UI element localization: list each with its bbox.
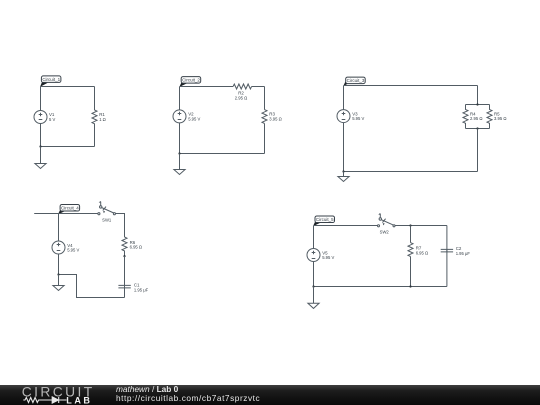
wire left upper C2: [179, 87, 181, 110]
voltage source V1: [34, 111, 55, 124]
svg-text:LAB: LAB: [66, 396, 92, 405]
svg-text:SW2: SW2: [380, 230, 390, 235]
wire left lower C5: [313, 262, 315, 287]
resistor R6: [122, 237, 142, 256]
flag Circuit_3: [343, 77, 365, 86]
svg-text:1 Ω: 1 Ω: [99, 117, 106, 122]
ground C5: [308, 287, 319, 309]
wire left lower C3: [343, 123, 345, 172]
svg-text:6.95 Ω: 6.95 Ω: [130, 245, 142, 250]
svg-text:SW1: SW1: [102, 218, 112, 223]
wire top-left C2: [180, 86, 234, 88]
node junction top C5: [409, 224, 411, 226]
switch SW2: [377, 213, 395, 234]
switch SW1: [98, 201, 116, 222]
wire left lower C1: [40, 124, 42, 147]
footer bar: [0, 385, 540, 405]
wire bottom C4: [59, 275, 125, 298]
wire left lower C2: [179, 123, 181, 154]
flag Circuit_2: [179, 77, 200, 87]
voltage source V2: [173, 110, 201, 123]
svg-text:Circuit_1: Circuit_1: [42, 77, 60, 82]
wire left upper C3: [343, 86, 345, 110]
wire bottom C3: [344, 171, 478, 173]
wire top-right C2: [252, 86, 265, 88]
node junction left C5: [312, 285, 314, 287]
wire right upper C3: [477, 86, 479, 105]
capacitor C2: [441, 246, 471, 256]
svg-text:6.95 Ω: 6.95 Ω: [416, 250, 428, 255]
node junction bottom mid C5: [409, 285, 411, 287]
svg-text:5.95 V: 5.95 V: [188, 117, 200, 122]
svg-text:Circuit_4: Circuit_4: [61, 206, 79, 211]
wire right lower C2: [264, 124, 266, 154]
ground C1: [35, 147, 46, 169]
voltage source V4: [52, 241, 80, 254]
node junction top C3: [476, 103, 478, 105]
svg-text:2.95 Ω: 2.95 Ω: [470, 116, 482, 121]
resistor R4: [463, 105, 482, 129]
wire parallel box bottom C3: [466, 128, 490, 130]
wire right upper C2: [264, 87, 266, 110]
capacitor C1: [118, 282, 148, 292]
svg-text:3.95 Ω: 3.95 Ω: [269, 117, 281, 122]
voltage source V5: [307, 249, 335, 262]
svg-text:1.95 μF: 1.95 μF: [456, 251, 471, 256]
wire right lower C5: [446, 249, 448, 286]
ground C2: [174, 154, 185, 175]
resistor R1: [92, 87, 106, 147]
node junction bottom-right C3: [476, 127, 478, 129]
wire left upper C1: [40, 87, 42, 111]
wire stub left C4: [34, 213, 58, 215]
svg-text:5.95 V: 5.95 V: [67, 248, 79, 253]
wire top-right C4: [116, 214, 125, 238]
wire top C1: [41, 86, 95, 88]
wire parallel box top C3: [466, 104, 490, 106]
voltage source V3: [337, 110, 365, 123]
flag Circuit_1: [40, 76, 61, 87]
node junction below R6: [123, 255, 125, 257]
svg-text:Circuit_5: Circuit_5: [316, 217, 334, 222]
svg-text:5.95 V: 5.95 V: [322, 255, 334, 260]
wire top-left C5: [314, 225, 378, 227]
resistor R7: [408, 243, 428, 257]
svg-text:1.95 μF: 1.95 μF: [134, 287, 149, 292]
svg-text:Circuit_2: Circuit_2: [182, 78, 200, 83]
flag Circuit_4: [58, 205, 80, 215]
wire top C3: [344, 85, 478, 87]
wire right mid C4: [124, 256, 126, 297]
node junction C4: [57, 273, 59, 275]
node junction C1: [39, 145, 41, 147]
wire R7 lower lead: [410, 257, 412, 287]
resistor R2: [233, 84, 252, 101]
svg-text:3.95 Ω: 3.95 Ω: [494, 116, 506, 121]
svg-text:5 V: 5 V: [49, 117, 55, 122]
wire top-right C5: [395, 225, 447, 227]
resistor R3: [262, 110, 282, 124]
footer title text: [116, 385, 260, 404]
wire right upper C5: [446, 226, 448, 253]
node junction C2: [178, 152, 180, 154]
wire top C4: [59, 213, 98, 215]
wire left upper C5: [313, 226, 315, 249]
wire bottom C5: [314, 286, 447, 288]
node junction left C3: [342, 170, 344, 172]
resistor R5: [487, 105, 506, 129]
ground C4: [53, 275, 64, 291]
ground C3: [338, 172, 349, 182]
wire R7 upper lead: [410, 226, 412, 243]
svg-text:5.95 V: 5.95 V: [352, 116, 364, 121]
wire right lower C3: [477, 129, 479, 172]
svg-text:Circuit_3: Circuit_3: [347, 78, 365, 83]
wire left lower C4: [58, 254, 60, 275]
wire left upper C4: [58, 214, 60, 242]
CircuitLab logo: [0, 384, 110, 405]
svg-text:2.95 Ω: 2.95 Ω: [235, 96, 247, 101]
wire bottom C2: [180, 153, 265, 155]
wire bottom C1: [41, 146, 95, 148]
flag Circuit_5: [313, 216, 335, 226]
